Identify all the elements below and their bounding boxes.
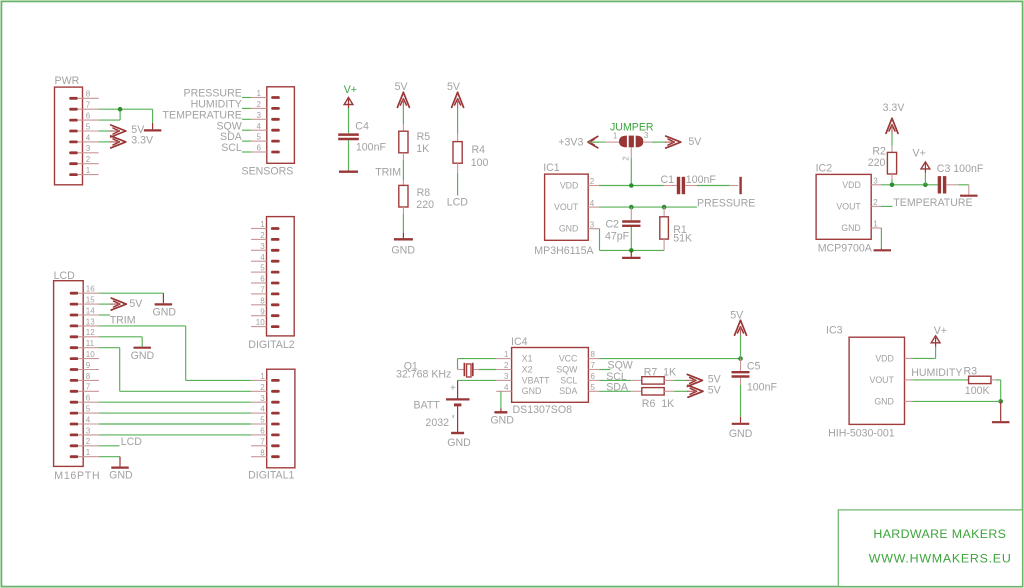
wire 5V to C5 junction xyxy=(740,335,742,358)
wire LCD pin 12 to ground xyxy=(99,337,142,347)
svg-text:100nF: 100nF xyxy=(686,174,717,186)
svg-text:7: 7 xyxy=(260,437,265,446)
power V+ symbol at C4 xyxy=(344,84,357,109)
supply +3V3 arrow xyxy=(588,136,599,147)
svg-text:R5: R5 xyxy=(417,131,431,143)
svg-text:2: 2 xyxy=(873,198,878,207)
title block xyxy=(838,510,1022,587)
svg-text:6: 6 xyxy=(260,427,265,436)
svg-text:1: 1 xyxy=(86,448,91,457)
svg-text:VCC: VCC xyxy=(559,354,578,364)
svg-text:SQW: SQW xyxy=(608,359,633,371)
wire LCD pin 3 to DIGITAL1 pin 6 xyxy=(99,434,251,436)
ground GND below R8 xyxy=(391,239,415,256)
svg-text:3: 3 xyxy=(504,372,509,381)
supply 5V bar xyxy=(131,124,161,136)
svg-text:6: 6 xyxy=(260,275,265,284)
capacitor C5 100nF xyxy=(732,359,778,394)
wire PWR pin 5 xyxy=(99,130,113,132)
svg-text:GND: GND xyxy=(391,244,415,256)
svg-text:C5: C5 xyxy=(747,360,761,372)
svg-text:5V: 5V xyxy=(447,81,461,93)
svg-text:V+: V+ xyxy=(344,84,357,96)
svg-text:7: 7 xyxy=(591,361,596,370)
net label SQW xyxy=(608,359,633,371)
svg-text:R7 1K: R7 1K xyxy=(644,367,676,379)
wire junction to ground xyxy=(1000,401,1002,421)
ground bar right of C3 xyxy=(960,195,978,197)
svg-text:5: 5 xyxy=(260,416,265,425)
net label TRIM xyxy=(375,166,401,178)
svg-text:10: 10 xyxy=(86,350,95,359)
connector PWR (8-pin header) xyxy=(55,75,99,185)
svg-text:LCD: LCD xyxy=(447,196,469,208)
svg-text:HUMIDITY: HUMIDITY xyxy=(911,367,962,379)
svg-text:1K: 1K xyxy=(416,143,429,155)
resistor R4 100 xyxy=(453,142,488,170)
net label TEMPERATURE xyxy=(893,197,972,209)
supply 3.3V arrow xyxy=(110,134,154,148)
svg-text:X1: X1 xyxy=(522,354,533,364)
wire V+ to VDD net xyxy=(924,173,926,185)
svg-text:3: 3 xyxy=(590,220,595,229)
svg-text:VOUT: VOUT xyxy=(836,201,861,211)
wire battery to ground xyxy=(457,406,459,432)
svg-text:C3 100nF: C3 100nF xyxy=(937,163,984,175)
svg-text:32.768 KHz: 32.768 KHz xyxy=(396,369,451,381)
svg-text:3: 3 xyxy=(86,144,91,153)
wire X1 to crystal xyxy=(458,359,497,370)
resistor R2 220 xyxy=(868,146,897,174)
resistor R7 1K xyxy=(642,367,676,385)
svg-text:100nF: 100nF xyxy=(356,142,387,154)
svg-text:4: 4 xyxy=(86,415,91,424)
wire R8 to ground xyxy=(402,207,404,238)
wire net SCL to SENSORS pin 6 xyxy=(221,142,251,154)
wire LCD pin 13 to DIGITAL1 pin 1 xyxy=(99,326,251,381)
net label HUMIDITY xyxy=(911,367,962,379)
ground GND at LCD pin 12 xyxy=(131,348,155,362)
wire 5V to R4 xyxy=(457,108,459,142)
svg-text:TEMPERATURE: TEMPERATURE xyxy=(893,197,972,209)
svg-text:6: 6 xyxy=(86,394,91,403)
wire VDD net IC1 xyxy=(599,183,664,188)
svg-text:51K: 51K xyxy=(673,232,692,244)
svg-text:+3V3: +3V3 xyxy=(558,136,583,148)
net label +3V3 xyxy=(558,136,583,148)
svg-text:LCD: LCD xyxy=(54,270,76,282)
resistor R8 220 xyxy=(399,185,434,211)
svg-text:220: 220 xyxy=(868,157,886,169)
svg-text:GND: GND xyxy=(522,386,542,396)
wire TRIM node R5-R8 xyxy=(402,153,404,186)
wire jumper pin 3 to 5V xyxy=(643,141,667,143)
wire net HUMIDITY to SENSORS pin 2 xyxy=(191,99,252,111)
jumper JUMPER (3-pin) xyxy=(610,122,654,161)
net label TRIM at LCD pin 13 xyxy=(110,315,136,327)
svg-text:5V: 5V xyxy=(395,81,409,93)
wire VBATT to battery xyxy=(458,380,497,398)
svg-text:2: 2 xyxy=(257,100,262,109)
svg-text:3.3V: 3.3V xyxy=(883,102,906,114)
svg-text:DIGITAL1: DIGITAL1 xyxy=(248,469,294,481)
svg-text:13: 13 xyxy=(86,317,95,326)
svg-text:3: 3 xyxy=(257,111,262,120)
wire LCD pin 5 to DIGITAL1 pin 4 xyxy=(99,412,251,414)
wire IC2 VDD net xyxy=(881,183,938,188)
wire SDA to R6 xyxy=(599,390,642,392)
capacitor C1 100nF xyxy=(661,174,717,194)
svg-text:100K: 100K xyxy=(965,385,990,397)
svg-text:R4: R4 xyxy=(472,144,486,156)
svg-text:10: 10 xyxy=(256,318,265,327)
svg-text:R2: R2 xyxy=(872,146,886,158)
svg-text:DS1307SO8: DS1307SO8 xyxy=(513,404,573,416)
wire net SQW to SENSORS pin 4 xyxy=(216,120,251,132)
wire C3 to ground xyxy=(946,185,968,195)
wire SQW stub xyxy=(599,369,610,371)
wire net TEMPERATURE to SENSORS pin 3 xyxy=(163,109,252,121)
supply bar right of C1 xyxy=(739,177,741,194)
net label LCD xyxy=(447,196,469,208)
IC4 DS1307SO8 RTC xyxy=(496,336,599,416)
supply 5V arrow at R7 xyxy=(686,374,721,387)
svg-text:C4: C4 xyxy=(355,121,369,133)
svg-text:LCD: LCD xyxy=(121,436,143,448)
supply 3.3V arrow above R2 xyxy=(883,102,906,135)
wire 5V to R5 xyxy=(402,108,404,132)
wire R2 to IC2 VDD net xyxy=(891,174,893,185)
svg-text:100nF: 100nF xyxy=(747,381,778,393)
wire LCD pin 14 stub xyxy=(99,314,110,316)
svg-text:4: 4 xyxy=(86,133,91,142)
svg-text:5: 5 xyxy=(86,122,91,131)
svg-text:R3: R3 xyxy=(964,365,978,377)
svg-text:1: 1 xyxy=(86,166,91,175)
wire LCD pin 16 to ground xyxy=(99,293,163,303)
wire LCD pin 1 to ground xyxy=(99,457,120,467)
svg-text:5V: 5V xyxy=(688,136,702,148)
ground bar below R3 xyxy=(992,421,1010,423)
svg-text:GND: GND xyxy=(841,223,861,233)
svg-text:VDD: VDD xyxy=(875,354,894,364)
svg-text:11: 11 xyxy=(86,339,95,348)
svg-text:2: 2 xyxy=(86,155,91,164)
svg-text:3: 3 xyxy=(260,394,265,403)
capacitor C3 100nF xyxy=(937,163,984,194)
wire R7 to 5V xyxy=(664,379,687,381)
op-amp IC1 MP3H6115A pressure sensor xyxy=(534,162,599,257)
resistor R1 51K xyxy=(660,207,692,250)
resistor R3 100K xyxy=(964,365,992,397)
wire LCD pin 15 to 5V xyxy=(99,303,113,305)
svg-text:3: 3 xyxy=(644,131,649,140)
svg-text:GND: GND xyxy=(447,437,471,449)
wire PWR pins 7/6 to 5V supply xyxy=(99,107,153,130)
svg-text:8: 8 xyxy=(86,372,91,381)
svg-text:2032: 2032 xyxy=(425,417,449,429)
wire V+ to C4 xyxy=(348,108,350,133)
ground GND at LCD pin 16 xyxy=(153,304,177,318)
supply 5V arrow right of jumper xyxy=(665,136,702,148)
net label SDA xyxy=(606,382,629,394)
svg-text:1: 1 xyxy=(257,89,262,98)
svg-text:5V: 5V xyxy=(129,298,143,310)
svg-text:VDD: VDD xyxy=(560,180,579,190)
svg-text:2: 2 xyxy=(260,383,265,392)
supply 5V arrow xyxy=(110,125,126,137)
wire R4 to LCD net xyxy=(457,163,459,195)
svg-text:R8: R8 xyxy=(417,187,431,199)
wire LCD pin 6 to DIGITAL1 pin 3 xyxy=(99,401,251,403)
svg-text:TRIM: TRIM xyxy=(110,315,136,327)
supply 5V arrow at LCD pin 15 xyxy=(110,298,143,310)
wire IC2 GND to ground xyxy=(880,228,882,249)
svg-text:5: 5 xyxy=(260,264,265,273)
svg-text:1: 1 xyxy=(260,372,265,381)
wire C1 to supply bar xyxy=(685,185,738,187)
svg-text:MCP9700A: MCP9700A xyxy=(818,242,873,254)
crystal Q1 32.768 KHz xyxy=(396,360,473,380)
wire C4 to ground xyxy=(348,140,350,171)
svg-text:VDD: VDD xyxy=(842,180,861,190)
svg-text:VOUT: VOUT xyxy=(554,202,579,212)
svg-text:4: 4 xyxy=(260,405,265,414)
svg-text:GND: GND xyxy=(559,224,579,234)
svg-text:SCL: SCL xyxy=(221,142,242,154)
net label SCL xyxy=(606,371,627,383)
supply 5V arrow above R4 xyxy=(447,81,464,109)
svg-text:SQW: SQW xyxy=(556,364,578,374)
IC3 HIH-5030-001 humidity sensor xyxy=(826,324,912,439)
svg-text:X2: X2 xyxy=(522,364,533,374)
svg-text:PRESSURE: PRESSURE xyxy=(697,197,755,209)
supply 5V arrow above C5 xyxy=(730,310,746,337)
svg-text:M16PTH: M16PTH xyxy=(54,470,100,482)
supply 5V arrow above R5 xyxy=(395,81,410,109)
svg-text:7: 7 xyxy=(86,101,91,110)
connector DIGITAL1 (8-pin header) xyxy=(248,369,295,481)
svg-text:GND: GND xyxy=(490,415,514,427)
op-amp IC2 MCP9700A temperature sensor xyxy=(816,162,882,254)
svg-text:SCL: SCL xyxy=(560,375,577,385)
svg-text:9: 9 xyxy=(86,361,91,370)
wire jumper pin 2 down to VDD net xyxy=(630,147,632,185)
wire PRESSURE net from IC1 VOUT xyxy=(599,205,697,210)
ground bar below C4 xyxy=(339,171,358,173)
wire VCC net to C5 xyxy=(599,356,743,361)
svg-text:2: 2 xyxy=(621,156,630,161)
svg-text:4: 4 xyxy=(590,199,595,208)
svg-text:100: 100 xyxy=(471,157,489,169)
svg-text:R6 1K: R6 1K xyxy=(642,398,674,410)
svg-text:V+: V+ xyxy=(913,148,926,160)
wire LCD pin 11 to DIGITAL1 pin 2 xyxy=(99,348,251,392)
supply 5V arrow at R6 xyxy=(687,384,722,397)
svg-text:8: 8 xyxy=(260,448,265,457)
ground GND below battery xyxy=(447,433,471,449)
svg-text:14: 14 xyxy=(86,306,95,315)
svg-text:3.3V: 3.3V xyxy=(131,134,154,146)
svg-text:PWR: PWR xyxy=(55,75,80,87)
net label LCD at pin 2 xyxy=(121,436,143,448)
ground GND at LCD pin 1 xyxy=(109,468,133,482)
power V+ symbol above IC2 VDD xyxy=(913,148,930,173)
connector DIGITAL2 (10-pin header) xyxy=(248,217,294,351)
svg-text:VOUT: VOUT xyxy=(869,375,894,385)
wire net PRESSURE to SENSORS pin 1 xyxy=(184,88,252,100)
svg-text:IC1: IC1 xyxy=(543,162,560,174)
wire IC4 GND pin to ground xyxy=(500,391,502,411)
svg-text:GND: GND xyxy=(874,397,894,407)
svg-text:MP3H6115A: MP3H6115A xyxy=(534,245,594,257)
ground GND below C5 xyxy=(729,424,753,440)
svg-text:5V: 5V xyxy=(730,310,744,322)
svg-text:47pF: 47pF xyxy=(605,230,630,242)
svg-text:4: 4 xyxy=(260,253,265,262)
svg-text:GND: GND xyxy=(729,428,753,440)
svg-text:3: 3 xyxy=(873,176,878,185)
svg-text:16: 16 xyxy=(86,285,95,294)
svg-text:9: 9 xyxy=(260,307,265,316)
wire TEMPERATURE net from IC2 VOUT xyxy=(881,205,893,207)
svg-text:6: 6 xyxy=(591,372,596,381)
wire SCL to R7 xyxy=(599,379,642,381)
svg-text:2: 2 xyxy=(590,177,595,186)
svg-text:7: 7 xyxy=(260,286,265,295)
wire R6 to 5V xyxy=(664,390,688,392)
svg-text:5V: 5V xyxy=(708,384,722,396)
svg-text:8: 8 xyxy=(591,350,596,359)
power V+ symbol above IC3 xyxy=(931,325,947,347)
wire C2 to ground net xyxy=(630,227,632,250)
svg-text:WWW.HWMAKERS.EU: WWW.HWMAKERS.EU xyxy=(869,552,1012,566)
wire IC3 VDD to V+ xyxy=(912,347,935,358)
capacitor C2 47pF xyxy=(605,207,640,242)
svg-text:V+: V+ xyxy=(934,325,947,337)
capacitor C4 100nF xyxy=(338,121,386,154)
resistor R6 1K xyxy=(642,388,674,411)
svg-text:15: 15 xyxy=(86,296,95,305)
ground GND below IC4 xyxy=(490,412,514,426)
svg-text:8: 8 xyxy=(86,90,91,99)
wire +3V3 to jumper pin 1 xyxy=(589,141,619,143)
wire IC1 GND to ground xyxy=(599,229,664,257)
svg-text:5: 5 xyxy=(257,133,262,142)
svg-text:2: 2 xyxy=(260,231,265,240)
svg-text:BATT: BATT xyxy=(414,400,441,412)
svg-text:6: 6 xyxy=(86,112,91,121)
wire R3 to ground junction xyxy=(991,380,1003,404)
svg-text:1: 1 xyxy=(873,220,878,229)
wire net SDA to SENSORS pin 5 xyxy=(220,131,251,143)
resistor R5 1K xyxy=(399,131,430,155)
net label PRESSURE xyxy=(697,197,755,209)
svg-text:1: 1 xyxy=(260,220,265,229)
svg-text:C1: C1 xyxy=(661,174,675,186)
wire HUMIDITY net IC3 VOUT to R3 xyxy=(912,379,968,381)
svg-text:4: 4 xyxy=(257,122,262,131)
wire IC3 GND to junction xyxy=(912,400,1000,402)
wire C5 to ground xyxy=(740,378,742,423)
connector SENSORS (6-pin header) xyxy=(242,87,295,178)
svg-text:2: 2 xyxy=(504,361,509,370)
svg-text:12: 12 xyxy=(86,328,95,337)
wire LCD pin 2 stub xyxy=(99,445,120,447)
svg-text:VBATT: VBATT xyxy=(522,375,550,385)
svg-text:DIGITAL2: DIGITAL2 xyxy=(248,339,294,351)
svg-text:IC2: IC2 xyxy=(816,162,833,174)
svg-text:SDA: SDA xyxy=(559,386,577,396)
svg-text:220: 220 xyxy=(416,199,434,211)
svg-text:GND: GND xyxy=(109,470,133,482)
svg-text:3: 3 xyxy=(260,242,265,251)
wire PWR pin 4 xyxy=(99,141,113,143)
ground bar below IC2 xyxy=(874,249,891,251)
svg-text:HARDWARE MAKERS: HARDWARE MAKERS xyxy=(873,527,1006,541)
connector LCD M16PTH (16-pin header) xyxy=(54,270,101,482)
svg-text:4: 4 xyxy=(504,383,509,392)
svg-text:SENSORS: SENSORS xyxy=(242,165,294,177)
svg-text:GND: GND xyxy=(131,350,155,362)
svg-text:8: 8 xyxy=(260,296,265,305)
svg-text:2: 2 xyxy=(86,437,91,446)
svg-text:SDA: SDA xyxy=(606,382,629,394)
svg-text:HIH-5030-001: HIH-5030-001 xyxy=(828,428,895,440)
svg-text:+: + xyxy=(450,383,456,394)
svg-text:1: 1 xyxy=(504,350,509,359)
svg-text:IC4: IC4 xyxy=(511,336,528,348)
svg-text:IC3: IC3 xyxy=(826,324,843,336)
svg-text:GND: GND xyxy=(153,306,177,318)
svg-text:6: 6 xyxy=(257,144,262,153)
svg-text:1: 1 xyxy=(613,131,618,140)
svg-text:3: 3 xyxy=(86,426,91,435)
svg-text:7: 7 xyxy=(86,383,91,392)
wire LCD pin 4 to DIGITAL1 pin 5 xyxy=(99,423,251,425)
svg-text:C2: C2 xyxy=(606,218,620,230)
wire 3.3V to R2 xyxy=(891,133,893,152)
svg-text:5: 5 xyxy=(86,405,91,414)
ground bar below IC1 xyxy=(622,257,640,259)
svg-text:TRIM: TRIM xyxy=(375,166,401,178)
battery BATT 2032 xyxy=(414,383,470,429)
wire crystal to X2 xyxy=(474,369,497,371)
svg-text:5: 5 xyxy=(591,383,596,392)
